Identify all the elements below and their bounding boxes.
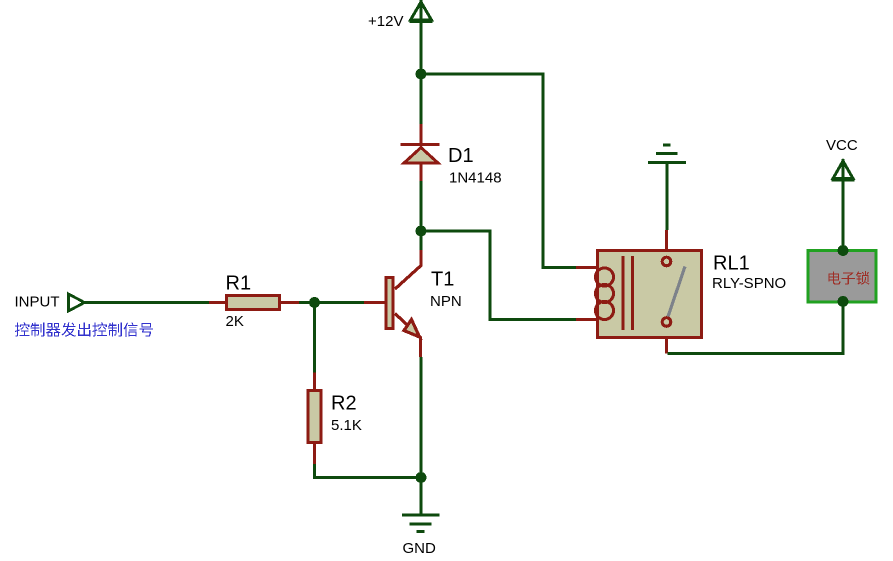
wire emitter to node D [420, 357, 423, 478]
resistor R1 [209, 296, 299, 310]
svg-text:D1: D1 [448, 145, 474, 167]
svg-text:5.1K: 5.1K [331, 417, 362, 434]
node B junction (collector node) [416, 226, 427, 237]
annotation: controller control signal (blue) [15, 322, 153, 336]
svg-text:VCC: VCC [826, 137, 858, 154]
wire R2 to node D [315, 464, 422, 478]
svg-text:R2: R2 [331, 393, 357, 415]
input terminal INPUT [69, 294, 85, 311]
electronic lock module [808, 251, 876, 303]
wire input to R1 [85, 301, 210, 304]
power terminal +12V [410, 0, 433, 23]
svg-text:1N4148: 1N4148 [449, 170, 502, 187]
label electronic lock (CJK) [828, 271, 869, 284]
diode D1 [401, 124, 440, 181]
node C junction (base node) [309, 297, 320, 308]
wire +12V to node A [420, 22, 423, 74]
wire node A to relay coil top [421, 74, 576, 268]
svg-text:GND: GND [403, 540, 437, 557]
resistor R2 [308, 373, 321, 465]
ground GND [402, 515, 440, 532]
transistor T1 [364, 250, 421, 357]
wire node B to collector [420, 231, 423, 252]
wire ground to relay common [666, 163, 669, 231]
wire node B to relay coil bottom [421, 231, 576, 320]
relay RL1 [576, 230, 702, 354]
power terminal VCC [832, 159, 855, 182]
svg-text:RLY-SPNO: RLY-SPNO [712, 275, 786, 292]
node E junction (lock bottom) [838, 296, 849, 307]
svg-text:2K: 2K [226, 313, 244, 330]
wire VCC to node F [842, 181, 845, 251]
ground (relay common, flipped) [648, 145, 686, 163]
wire diode to node B [420, 181, 423, 231]
svg-text:INPUT: INPUT [15, 294, 60, 311]
node A junction [416, 69, 427, 80]
svg-text:T1: T1 [431, 269, 454, 291]
wire node D to ground [420, 478, 423, 515]
node D junction (emitter/ground node) [416, 472, 427, 483]
wire R1 to node C [299, 301, 364, 304]
wire node C to R2 [313, 303, 316, 374]
svg-text:NPN: NPN [430, 293, 462, 310]
wire relay NO contact to lock [668, 302, 844, 354]
node F junction (lock top) [838, 245, 849, 256]
svg-text:R1: R1 [226, 273, 252, 295]
wire node A to diode D1 [420, 74, 423, 126]
svg-text:+12V: +12V [368, 13, 403, 30]
svg-text:RL1: RL1 [713, 253, 750, 275]
